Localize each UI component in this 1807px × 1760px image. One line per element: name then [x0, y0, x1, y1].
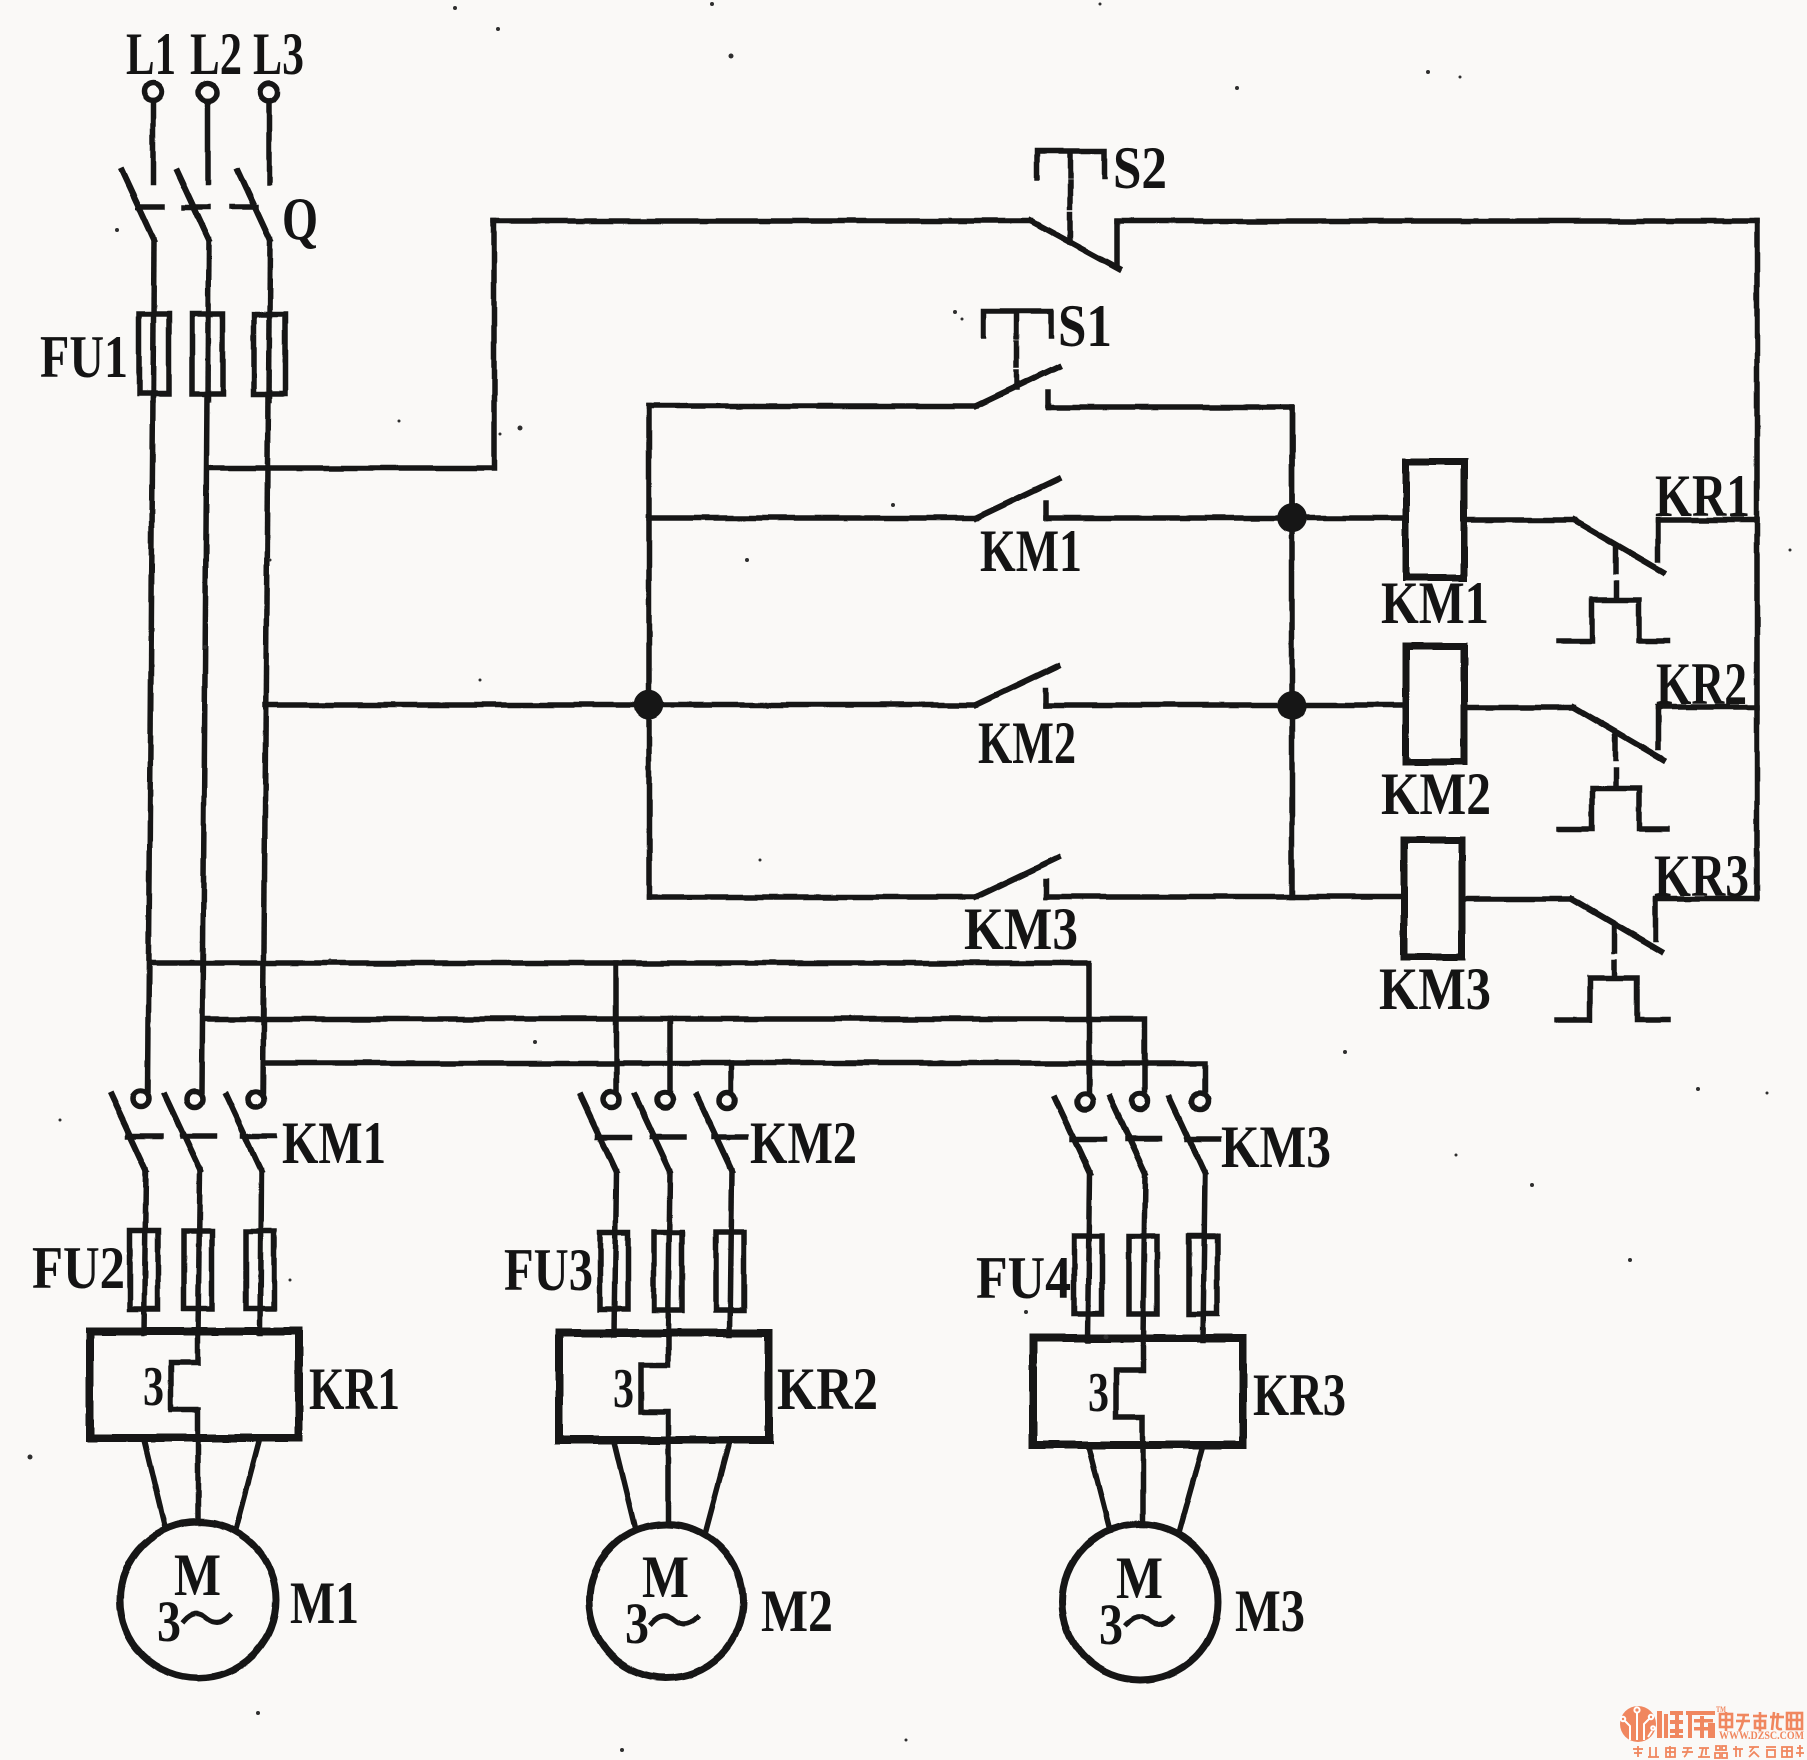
svg-text:3: 3 — [157, 1589, 181, 1654]
contact KM3 auxiliary: wire left — [649, 894, 976, 900]
fuse FU3 pole 3 — [716, 1232, 744, 1310]
KR1 reset button symbol — [1559, 600, 1668, 641]
wire control tap from L2 — [207, 221, 494, 468]
KR3 reset button symbol — [1557, 978, 1668, 1020]
wire Q to phase bus pole 3 (through FU1) — [269, 240, 270, 400]
svg-text:Q: Q — [282, 186, 318, 252]
motor M2 tilde — [652, 1616, 698, 1624]
svg-text:KR2: KR2 — [1656, 651, 1747, 717]
pushbutton S1 right contact tick — [1045, 392, 1051, 407]
svg-text:KM2: KM2 — [1381, 761, 1491, 827]
thermal relay KR1 heater box — [90, 1331, 299, 1438]
svg-text:KM1: KM1 — [980, 518, 1082, 584]
wire right supply bus — [1754, 221, 1760, 899]
svg-text:3: 3 — [1088, 1362, 1109, 1424]
watermark logo 维库电子市场网 — [1620, 1705, 1804, 1758]
fuse FU3 pole 2 — [654, 1232, 682, 1310]
wire L2 drop to switch Q — [205, 101, 211, 183]
contactor KM3 main contact pole 3 — [1170, 1094, 1219, 1340]
svg-text:M3: M3 — [1235, 1578, 1305, 1644]
svg-text:M1: M1 — [290, 1570, 359, 1636]
contactor KM3 main contact pole 2 — [1110, 1094, 1159, 1340]
contact KM2 auxiliary blade — [976, 666, 1058, 705]
svg-text:KM3: KM3 — [1221, 1114, 1331, 1180]
svg-text:KM1: KM1 — [282, 1110, 386, 1176]
wire phase 1 bus down — [148, 394, 153, 1091]
watermark circle icon — [1620, 1706, 1656, 1742]
svg-text:L1: L1 — [126, 21, 176, 87]
svg-text:3: 3 — [143, 1356, 164, 1418]
wire L1 drop to switch Q — [150, 101, 156, 183]
pushbutton S2 fixed contact bar — [1114, 222, 1120, 264]
fuse FU1 pole 1 — [139, 314, 169, 394]
fuse FU1 pole 3 — [254, 314, 285, 394]
contactor KM2 main contact pole 1 — [581, 1092, 630, 1335]
contactor KM2 main contact pole 2 — [635, 1092, 684, 1335]
fuse FU2 pole 3 — [246, 1231, 274, 1309]
contact KM3 auxiliary right tick — [1043, 882, 1049, 897]
wire feed line 1 — [150, 963, 1089, 1091]
contact KM2 auxiliary: wire from phase L3 — [265, 702, 976, 708]
pushbutton S2 cap — [1037, 151, 1105, 177]
contact KM1 auxiliary: wire left — [649, 515, 976, 521]
pushbutton S2 actuator dashes — [1067, 182, 1073, 207]
svg-text:3: 3 — [1099, 1592, 1123, 1657]
wire KM1 coil to KR1 — [1464, 517, 1574, 523]
node junction dot row1/right bus — [1280, 506, 1304, 530]
svg-text:KR1: KR1 — [1655, 463, 1750, 529]
switch Q linkage dash 2 — [184, 204, 208, 210]
pushbutton S1 cap — [983, 311, 1051, 336]
wire S1 right to corner — [1048, 407, 1292, 518]
switch Q linkage dash 1 — [138, 204, 162, 210]
fuse FU4 pole 2 — [1129, 1236, 1157, 1314]
wire tap to KM2 pole1 — [613, 963, 619, 1091]
wire phase 2 bus down — [202, 394, 207, 1091]
motor M2 — [589, 1524, 743, 1678]
svg-text:M: M — [1116, 1545, 1163, 1611]
motor M3 — [1062, 1524, 1218, 1680]
motor M1 tilde — [184, 1614, 230, 1622]
node junction dot row2/left bus — [637, 693, 661, 717]
contact KM2 auxiliary right tick — [1043, 690, 1049, 705]
svg-text:KM3: KM3 — [1379, 956, 1491, 1022]
fuse FU4 pole 1 — [1074, 1236, 1102, 1314]
contactor KM3 main contact pole 1 — [1055, 1094, 1104, 1340]
wire KR3 to right bus — [1656, 896, 1757, 902]
switch Q linkage dash 3 — [232, 204, 256, 210]
svg-text:FU2: FU2 — [32, 1235, 125, 1301]
fuse FU1 pole 2 — [192, 314, 223, 394]
pushbutton S2 NC blade — [1031, 221, 1119, 269]
motor M1 leads — [144, 1438, 260, 1529]
coil KM1 — [1406, 462, 1464, 578]
wire right mini bus — [1289, 407, 1295, 897]
watermark medium characters (stylised) — [1720, 1712, 1802, 1731]
wire tap to KM2 pole3 — [728, 1063, 734, 1091]
contact KR3 NC blade — [1572, 899, 1661, 951]
contact KR1 NC blade — [1574, 520, 1663, 572]
pushbutton S1 actuator dashes — [1014, 343, 1020, 365]
terminal L2 — [199, 83, 217, 101]
motor M1 — [120, 1522, 276, 1678]
contactor KM2 main contact pole 3 — [697, 1092, 746, 1335]
KR1 reset actuator dashes — [1613, 548, 1619, 572]
node junction dot row2/right bus — [1280, 693, 1304, 717]
wire KM2 row to coil — [1046, 702, 1406, 708]
contactor KM1 main contact pole 3 — [226, 1091, 275, 1333]
contact KR2 NC blade — [1574, 707, 1663, 759]
svg-text:KM3: KM3 — [964, 896, 1078, 962]
svg-text:3: 3 — [613, 1358, 634, 1420]
motor M3 leads — [1088, 1445, 1203, 1531]
motor M3 tilde — [1126, 1617, 1172, 1625]
svg-text:KM2: KM2 — [750, 1110, 857, 1176]
contact KM1 auxiliary blade — [976, 479, 1058, 518]
KR3 reset actuator dashes — [1611, 927, 1617, 951]
wire Q to phase bus pole 2 (through FU1) — [208, 240, 209, 400]
coil KM3 — [1404, 840, 1462, 957]
switch Q pole 1 blade — [122, 171, 154, 240]
svg-text:FU4: FU4 — [976, 1245, 1071, 1311]
fuse FU2 pole 2 — [184, 1231, 212, 1309]
wire KM3 row to coil — [1046, 894, 1404, 900]
svg-text:KR1: KR1 — [309, 1356, 400, 1422]
wire phase 3 bus down — [263, 394, 268, 1091]
watermark slogan characters (stylised) — [1633, 1745, 1804, 1758]
wire top control line to S2 — [494, 218, 1031, 224]
wire KR2 to right bus — [1658, 704, 1757, 710]
wire L3 drop to switch Q — [266, 101, 272, 183]
svg-text:S2: S2 — [1113, 135, 1167, 201]
KR2 reset actuator dashes — [1613, 735, 1619, 759]
contactor KM1 main contact pole 1 — [111, 1091, 160, 1333]
fuse FU3 pole 1 — [600, 1232, 628, 1310]
motor M2 leads — [614, 1440, 730, 1530]
wire Q to phase bus pole 1 (through FU1) — [153, 240, 154, 400]
thermal relay KR3 heater box — [1033, 1338, 1243, 1445]
terminal L1 — [144, 83, 162, 101]
wire KM3 coil to KR3 — [1462, 896, 1572, 902]
wire top control line S2 to right bus — [1117, 218, 1757, 224]
contact KM3 auxiliary blade — [976, 858, 1058, 897]
wire S1 left — [649, 403, 976, 409]
fuse FU4 pole 3 — [1189, 1236, 1217, 1314]
svg-text:L2: L2 — [190, 21, 242, 87]
watermark big characters (stylised) — [1657, 1711, 1715, 1738]
thermal relay KR2 heater box — [559, 1333, 769, 1440]
svg-text:S1: S1 — [1058, 293, 1112, 359]
wire KM2 coil to KR2 — [1464, 704, 1574, 710]
node L1 label — [0, 0, 3, 3]
contact KR3 fixed bar — [1653, 900, 1659, 939]
svg-text:L3: L3 — [253, 21, 304, 87]
wire KR1 to right bus — [1658, 517, 1757, 523]
svg-text:M2: M2 — [761, 1578, 833, 1644]
svg-text:WWW.DZSC.COM: WWW.DZSC.COM — [1719, 1730, 1804, 1742]
contact KM1 auxiliary right tick — [1043, 503, 1049, 518]
terminal L3 — [260, 83, 278, 101]
svg-text:KR3: KR3 — [1654, 843, 1749, 909]
contactor KM1 main contact pole 2 — [165, 1091, 214, 1333]
KR2 reset button symbol — [1559, 788, 1668, 829]
switch Q pole 3 blade — [238, 171, 270, 240]
svg-text:KR2: KR2 — [777, 1356, 878, 1422]
svg-text:FU3: FU3 — [504, 1237, 593, 1303]
svg-text:M: M — [174, 1542, 221, 1608]
svg-text:KM2: KM2 — [978, 710, 1076, 776]
wire tap to KM2 pole2 — [667, 1019, 673, 1091]
svg-text:KM1: KM1 — [1381, 570, 1489, 636]
contact KR1 fixed bar — [1655, 521, 1661, 560]
wire feed line 3 — [265, 1063, 1205, 1091]
coil KM2 — [1406, 646, 1464, 762]
contact KR2 fixed bar — [1655, 708, 1661, 747]
wire KM1 row to coil — [1046, 515, 1406, 521]
svg-text:M: M — [642, 1544, 689, 1610]
wire left control bus — [646, 406, 652, 897]
svg-text:KR3: KR3 — [1253, 1362, 1346, 1428]
pushbutton S1 NO blade — [976, 367, 1058, 406]
fuse FU2 pole 1 — [130, 1231, 158, 1309]
wire feed line 2 — [204, 1019, 1145, 1091]
switch Q pole 2 blade — [177, 171, 209, 240]
svg-text:FU1: FU1 — [40, 324, 128, 390]
svg-text:3: 3 — [625, 1591, 649, 1656]
